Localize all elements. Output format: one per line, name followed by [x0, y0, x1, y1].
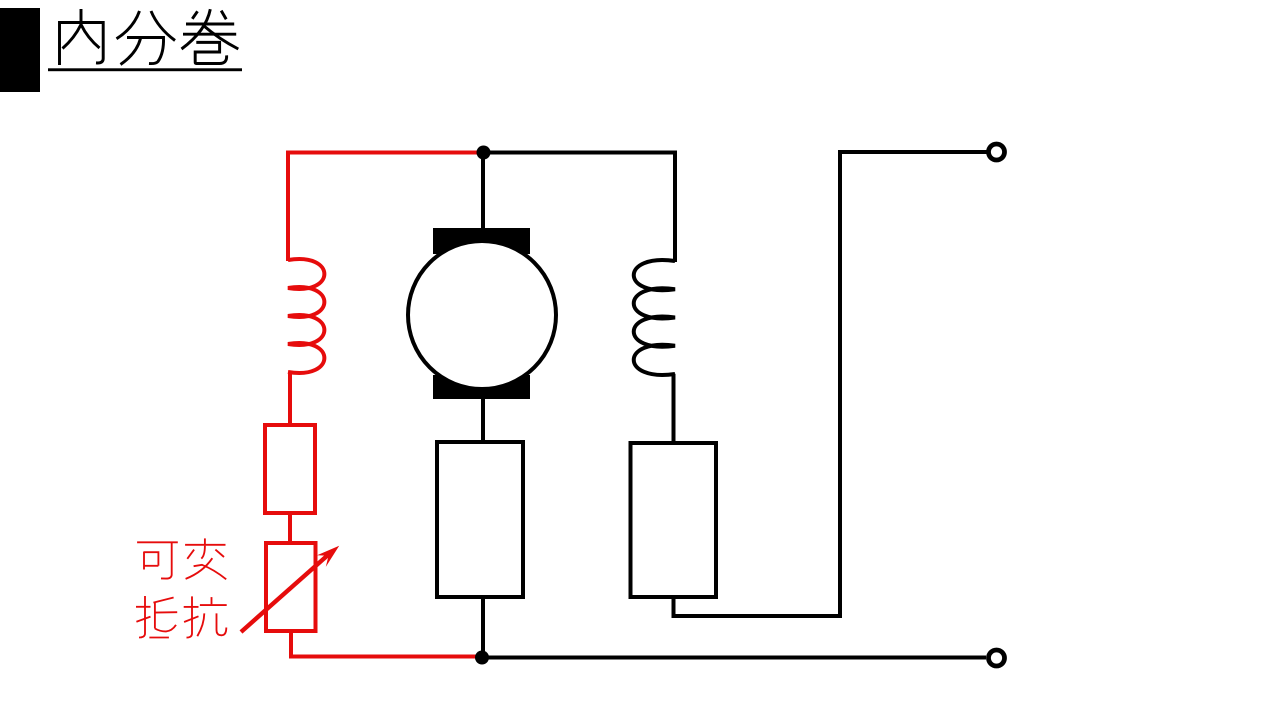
- node N1 (top junction): [477, 146, 491, 160]
- kanji 分: [117, 11, 176, 65]
- kanji 巻: [182, 9, 239, 63]
- title underline: [48, 68, 242, 71]
- motor brush top: [433, 228, 530, 254]
- label 可変抵抗 (red, hand-drawn strokes): [136, 538, 227, 637]
- wire: middle resistor to bottom node: [481, 597, 485, 658]
- wire: red top horizontal: [288, 151, 483, 155]
- title block bar: [0, 8, 40, 92]
- wire: between red resistors: [288, 513, 292, 543]
- variable resistor arrow shaft: [241, 552, 332, 632]
- title text 内分巻 (hand-drawn strokes): [60, 9, 239, 65]
- wire: right branch vertical into coil: [673, 151, 677, 263]
- motor brush bottom: [433, 375, 530, 399]
- node N2 (bottom junction): [475, 651, 489, 665]
- wire: motor top lead: [481, 151, 485, 230]
- resistor R3 (red fixed): [265, 425, 315, 513]
- kanji 抵: [136, 596, 177, 638]
- terminal T2 (bottom right): [989, 650, 1005, 666]
- wire: motor bottom lead: [481, 399, 485, 442]
- motor M armature circle: [408, 241, 556, 389]
- wire: right resistor bottom elbow: [674, 152, 987, 616]
- kanji 内: [60, 9, 104, 65]
- resistor R2 (right): [631, 443, 717, 597]
- wire: coil to red resistor: [288, 372, 292, 425]
- wire: red left vertical: [286, 151, 290, 262]
- coil L1 (red, bulge right): [288, 259, 324, 373]
- variable resistor VR body: [266, 543, 316, 631]
- terminal T1 (top right): [989, 144, 1005, 160]
- wire: bottom rail to terminal: [483, 656, 986, 660]
- variable resistor arrowhead: [317, 546, 339, 567]
- red branch: [265, 151, 483, 657]
- wire: top black from node to right branch: [483, 151, 675, 155]
- resistor R1 (middle, armature series): [437, 442, 523, 597]
- coil L2 (black, bulge left): [634, 260, 675, 375]
- kanji 変: [185, 538, 226, 579]
- wire: coil to right resistor: [672, 374, 676, 443]
- wire: red bottom elbow to node: [291, 631, 483, 657]
- kanji 抗: [184, 596, 227, 637]
- kanji 可: [137, 542, 178, 578]
